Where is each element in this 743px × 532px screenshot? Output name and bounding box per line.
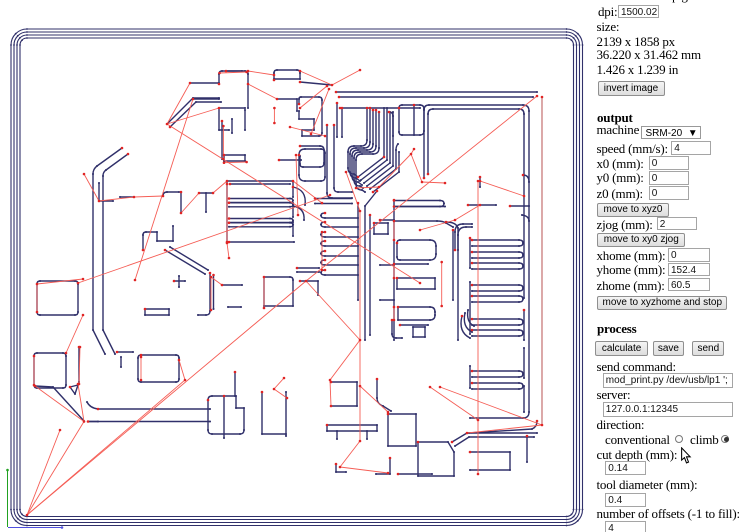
L1 arrow row [229, 241, 294, 243]
maze C2 [350, 108, 370, 181]
x0 input [649, 156, 689, 170]
Rladder row8 [472, 383, 523, 389]
trace vertex dots [189, 82, 191, 84]
rapid move hop12 [227, 243, 229, 258]
calculate button [595, 341, 648, 357]
maze C5 [356, 112, 379, 192]
rapid move hopW1 [27, 422, 84, 516]
rapid move travel big3 [27, 380, 185, 515]
dpi label [598, 4, 617, 20]
send command label [597, 359, 676, 375]
machine select [641, 126, 701, 139]
trace C slant b [170, 102, 221, 127]
invert image button [598, 81, 665, 96]
path nodes (red) [26, 514, 29, 517]
rapid move hopRB2 [420, 220, 455, 230]
Rladder row5 [472, 319, 523, 325]
rapid move hop3 [332, 70, 360, 85]
rapid move hopL3 [140, 357, 142, 380]
Rladder left verts [469, 238, 471, 388]
rapid move travel big2 [27, 281, 306, 515]
rapid move hopL2 [321, 232, 323, 270]
rblock hooks [522, 175, 529, 221]
trace E hook [163, 192, 179, 196]
bigblock inner [428, 109, 524, 298]
C2 box [264, 277, 293, 308]
rapid move hopMaze6 [411, 154, 422, 182]
rapid move hopMaze7 [422, 182, 445, 183]
Lblock vert b [213, 275, 215, 309]
rapid move hop18 [440, 387, 542, 425]
rapid move hop22 [36, 284, 38, 312]
maze outer verts [384, 108, 398, 169]
long h1 [87, 402, 210, 409]
L1 row2b [229, 223, 293, 227]
size in [597, 62, 679, 78]
trace A stub1 [190, 82, 219, 84]
trace D inner [103, 154, 128, 354]
conventional label [605, 432, 670, 448]
rapid move hopA5 [224, 161, 247, 164]
bigblock bottom corner [469, 421, 537, 433]
wedge diagonal [35, 386, 84, 421]
trace A stub2 [193, 98, 219, 100]
maze C3 [352, 110, 373, 185]
bigblock outline [424, 105, 529, 418]
rapid move hopMaze1 [296, 155, 298, 215]
L1 row2a [229, 219, 293, 223]
output header [597, 110, 633, 126]
midcol box1 [397, 240, 436, 260]
B lowblock big [299, 149, 325, 181]
midcol left stubs [380, 220, 394, 300]
Y axis (green) [7, 470, 9, 527]
rapid move hopRB1 [455, 205, 480, 220]
maze bottom rows [315, 199, 352, 204]
yhome label [597, 262, 666, 278]
Lblock cross [174, 276, 185, 287]
rapid move hop23 [33, 356, 35, 385]
rapid move travel big6 [78, 195, 330, 283]
maze wide col a [327, 125, 352, 198]
maze rightbox [399, 105, 424, 135]
rapid move travel darkvert [541, 97, 543, 425]
move to xyzhome and stop button [597, 296, 727, 310]
maze topline b [339, 96, 533, 98]
zjog label [597, 217, 653, 233]
board outline contour 2 [14, 32, 580, 523]
L2 vert3 [369, 215, 371, 335]
speed input [671, 141, 711, 154]
rblock node line [468, 204, 496, 206]
rapid move hop4 [167, 83, 190, 124]
climb label [690, 432, 719, 448]
trace D stubs [99, 183, 134, 201]
maze top2 [340, 107, 420, 109]
L1 row1a [229, 199, 293, 203]
server label [597, 387, 631, 403]
rapid move hopL1 [37, 279, 83, 284]
BM box1 [331, 382, 357, 406]
trace A box2 [219, 108, 245, 130]
L2 row0 [321, 213, 358, 218]
rapid move hop13 [263, 277, 265, 308]
xhome label [597, 248, 666, 264]
rapid move hop19 [467, 425, 542, 433]
bigblock bottom line [452, 433, 537, 446]
BM stub [398, 473, 432, 475]
rapid move hopC1 [211, 277, 222, 285]
trace B lowblock [300, 146, 324, 167]
wedge vert [78, 347, 80, 382]
midcol big curve [446, 222, 458, 340]
Lblock Z [143, 226, 173, 250]
maze band [358, 157, 396, 189]
rapid move hop15 [330, 340, 360, 380]
rapid move hop9 [181, 193, 199, 213]
cut depth label [597, 447, 678, 463]
zhome input [668, 278, 710, 292]
rapid move travel big1 [306, 96, 537, 281]
Lblock1 [37, 281, 78, 315]
y0 label [597, 170, 644, 186]
L2 row4 [321, 251, 358, 256]
long h2 [88, 421, 210, 423]
midcol row top [394, 201, 444, 207]
rapid move hop5 [167, 108, 219, 124]
Rladder row6 [472, 330, 523, 336]
Lblock small [145, 309, 169, 315]
Lblock stubs [222, 285, 242, 307]
L1 top b [230, 183, 290, 185]
rapid move hopA4 [220, 72, 247, 73]
midcol bottom bits [392, 320, 425, 338]
rapid move hopW2 [35, 386, 84, 422]
rapid move hop24 [27, 430, 60, 515]
rapid move hopMid4 [393, 307, 395, 320]
Rladder row0 [472, 240, 523, 246]
midcol row2 [394, 206, 445, 208]
Rladder row4 [472, 296, 523, 302]
RB box [470, 452, 510, 470]
climb radio (selected) [721, 435, 729, 443]
rapid move hopBM2 [330, 380, 331, 406]
rapid move hopN2 [274, 389, 287, 398]
midcol vert inner [452, 230, 454, 300]
mouse cursor [680, 447, 693, 465]
D bend hook [117, 352, 133, 367]
x0 label [597, 156, 644, 172]
rapid move hopMaze4 [379, 154, 411, 187]
L2 smallbox [374, 223, 388, 234]
cut depth input [605, 461, 646, 475]
C2 rows [297, 268, 319, 272]
rapid move travel big5 [135, 99, 193, 280]
Lblock diag [165, 247, 208, 274]
trace B toprect [274, 70, 300, 80]
process header [597, 321, 637, 337]
y0 input [649, 171, 689, 185]
corner fan [461, 310, 474, 338]
Rladder row1 [472, 252, 523, 258]
rapid move hopMaze3 [356, 187, 379, 188]
L2 spine [357, 203, 359, 300]
L1 top a [227, 180, 293, 182]
rapid move hop25 [179, 360, 185, 380]
rapid move hopMid1 [393, 221, 395, 240]
rapid move hop6 [84, 174, 99, 201]
BM box3 [418, 442, 454, 476]
rapid move hop16 [360, 386, 388, 412]
Rladder row3 [472, 285, 523, 291]
Rladder row7 [472, 371, 523, 377]
rapid move hopMaze5 [411, 149, 414, 154]
rapid move hop7 [99, 197, 134, 201]
L2 row5 [321, 260, 358, 265]
send button [692, 341, 724, 357]
L1 spine [226, 181, 228, 242]
rapid move hopMid3 [441, 262, 443, 306]
X axis (blue) [8, 527, 62, 529]
RB vert [526, 436, 528, 462]
maze vleft b [341, 108, 343, 137]
rapid move hop8 [134, 196, 163, 197]
rapid move hopN1 [274, 378, 284, 389]
L1 right verts [292, 181, 294, 236]
trace E vert [180, 192, 182, 213]
board outline contour 4 [20, 38, 574, 517]
rapid move travel big4 [167, 124, 420, 283]
Rladder row2 [472, 263, 523, 269]
Lblock3 [138, 355, 179, 382]
midcol box2 [397, 278, 435, 289]
maze rightbox inner [413, 105, 415, 135]
L1 row1b [229, 203, 293, 207]
rblock stub vert [479, 177, 481, 187]
send command input [603, 373, 733, 388]
maze C4 [354, 110, 376, 188]
z0 label [597, 186, 643, 202]
trace A box1 inner [226, 70, 242, 72]
rapid move hop10 [213, 181, 227, 193]
conventional radio [675, 435, 683, 443]
maze exit diag to vert2 [365, 191, 377, 340]
Hblock1 div [223, 396, 225, 438]
Lblock vert [198, 273, 210, 315]
L2 row2 [321, 232, 358, 237]
rapid move travel vert1b [340, 441, 360, 467]
size label [597, 19, 620, 35]
rapid move hopA3 [273, 108, 275, 123]
rapid move hopMaze2 [290, 127, 325, 136]
trace A box1 [219, 71, 248, 108]
move to xy0 zjog button [597, 233, 685, 247]
rapid move hop20 [346, 172, 360, 211]
dpi input [618, 5, 659, 18]
maze innerbox [389, 112, 393, 136]
rapid move hopB3 [311, 89, 329, 134]
bigblock right tabs [523, 310, 525, 412]
rapid move hopW4 [79, 347, 80, 384]
yhome input [668, 263, 710, 277]
server input [603, 402, 733, 417]
trace B hook [277, 99, 297, 111]
rapid move hop11 [293, 181, 322, 203]
BC tick [336, 464, 346, 472]
trace C slant [167, 98, 219, 124]
rapid move hop1 [248, 71, 274, 75]
rapid move hopL2b [66, 315, 83, 353]
partial clipped text top [672, 0, 688, 4]
midcol row3 to curve [394, 221, 453, 227]
speed label [597, 141, 668, 157]
Lblock2 [34, 353, 66, 388]
rapid move travel vert1 [359, 211, 361, 441]
rapid move hop14 [210, 277, 212, 310]
Hblock1 [208, 396, 244, 434]
rapid move hop21 [480, 181, 524, 196]
tool diameter input [605, 493, 646, 507]
offsets input [605, 521, 646, 532]
save button [653, 341, 684, 357]
rapid move hopAB [248, 84, 277, 99]
L2 row3 [321, 241, 358, 246]
zjog input [657, 217, 697, 230]
nested corners box [455, 224, 472, 250]
xhome input [668, 248, 710, 262]
rapid move travel vert2 [477, 181, 479, 474]
rapid move hopL1spine [226, 184, 228, 242]
midcol row4 [394, 263, 428, 265]
L1 right scurves [293, 187, 305, 220]
maze band extra [373, 152, 399, 192]
rapid move hop17 [430, 387, 478, 420]
trace A pad [224, 155, 245, 161]
rapid move hopW3 [78, 384, 84, 422]
trace D outer [93, 148, 122, 354]
wedge arrow stub [88, 421, 98, 423]
midcol spine [393, 200, 395, 340]
BM hook [376, 458, 390, 474]
L2 row6 [321, 270, 358, 275]
zhome label [597, 278, 665, 294]
trace B link [300, 82, 332, 85]
z0 input [649, 186, 689, 200]
rapid move hopA2 [222, 126, 224, 159]
direction label [597, 417, 645, 433]
size px [597, 34, 675, 50]
midcol row5 [400, 324, 428, 326]
rapid move hopMid2 [393, 264, 395, 278]
board outline contour 3 [17, 35, 577, 520]
rapid move hop2 [300, 71, 332, 85]
rapid move travel big7 [306, 281, 360, 340]
rapid move hopB2 [300, 86, 327, 108]
BM feed curve [377, 379, 391, 411]
maze vleft a [336, 103, 338, 137]
L2 row1 [321, 222, 358, 227]
number of offsets label [597, 506, 740, 522]
rapid move travel vert1c [340, 467, 388, 473]
BM table [327, 425, 377, 439]
wedge triangle [70, 385, 78, 394]
rblock tab stub [510, 205, 529, 207]
maze C1 [348, 108, 367, 177]
trace B arrowstub [279, 159, 301, 161]
board outline contour 1 [11, 29, 583, 526]
move to xyz0 button [597, 203, 669, 217]
maze wide col b [334, 125, 352, 192]
C2 hook [300, 281, 318, 295]
maze topline a [336, 91, 537, 93]
machine label [597, 122, 640, 138]
trace E stub [199, 193, 213, 212]
tool diameter label [597, 477, 698, 493]
BM box2 [388, 414, 416, 446]
midcol box3 [398, 307, 435, 320]
trace B block [299, 97, 322, 136]
size mm [597, 47, 701, 63]
Hblock2 [262, 392, 286, 436]
trace A verts [222, 110, 245, 159]
Hblock1 feed vert [234, 372, 236, 396]
